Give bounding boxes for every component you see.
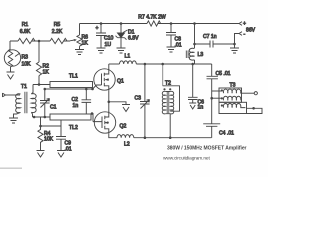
ground D1 <box>117 48 126 53</box>
svg-text:6.8K: 6.8K <box>20 29 31 35</box>
capacitor C5 <box>207 71 231 91</box>
svg-text:1n: 1n <box>198 105 204 111</box>
capacitor C9 <box>56 120 72 153</box>
wire R4 branch <box>41 117 62 126</box>
inductor L2 <box>117 135 134 148</box>
svg-text:R5: R5 <box>54 22 61 28</box>
potentiometer R3 <box>4 49 31 72</box>
node C1 top <box>44 88 47 91</box>
transmission line TL1 <box>50 74 93 88</box>
node L3 rail tee <box>193 22 196 25</box>
node D1 rail <box>120 22 123 25</box>
svg-text:-: - <box>244 32 246 38</box>
mosfet Q2 <box>94 111 126 133</box>
wire R2 vertical from junction <box>38 41 40 62</box>
node R4 top <box>39 125 42 128</box>
wire row2 stub <box>212 97 222 99</box>
svg-text:+: + <box>96 26 99 32</box>
mosfet Q1 <box>94 64 124 90</box>
supply terminal minus <box>233 32 245 49</box>
transformer T2 <box>162 64 179 138</box>
ground R6 <box>75 50 84 55</box>
svg-text:2.2K: 2.2K <box>52 29 63 35</box>
node row2 tee <box>210 97 213 100</box>
ground C9 <box>57 151 65 158</box>
node TL1 right <box>91 88 94 91</box>
wire gate Q1 under TL1 <box>45 85 102 89</box>
smudge bottom left <box>0 168 22 169</box>
svg-text:10K: 10K <box>22 62 32 68</box>
svg-text:R3: R3 <box>22 55 29 61</box>
ground T1 <box>9 118 18 123</box>
wire L3 vertical from rail <box>194 24 196 49</box>
zener D1 <box>116 24 140 49</box>
node C2 top <box>85 88 88 91</box>
svg-text:1n: 1n <box>73 103 79 109</box>
node C1 bottom <box>44 116 47 119</box>
inductor L3 <box>186 48 203 64</box>
svg-text:Q2: Q2 <box>120 124 127 130</box>
svg-text:TL1: TL1 <box>69 74 78 80</box>
node C10 rail <box>100 22 103 25</box>
svg-text:C4 .01: C4 .01 <box>219 131 234 137</box>
transmission line TL2 <box>50 114 91 131</box>
node output 2 <box>252 107 255 110</box>
wire rail corner to C5 <box>211 64 213 76</box>
potentiometer R6 <box>70 24 88 50</box>
resistor R5 <box>50 38 67 43</box>
node C7 tee <box>193 43 196 46</box>
capacitor C6 <box>188 64 204 111</box>
svg-text:6.8V: 6.8V <box>128 36 139 42</box>
svg-text:R1: R1 <box>22 22 29 28</box>
node R4 tap <box>33 116 36 119</box>
wire Q1 source to Q2 <box>108 90 110 111</box>
wire left down to R3 <box>9 41 11 49</box>
svg-text:C7 1n: C7 1n <box>203 34 217 40</box>
capacitor C2 <box>72 89 92 114</box>
wire drain rail y=64 <box>136 63 211 65</box>
wire main supply rail y=23.5 <box>80 23 240 25</box>
capacitor C8 <box>166 24 182 49</box>
ground C6 <box>189 103 196 109</box>
resistor R2 <box>36 62 41 85</box>
svg-text:C10: C10 <box>104 36 114 42</box>
capacitor C10 <box>96 24 114 49</box>
wire T1 to TL2 y=117 <box>33 116 51 118</box>
inductor L1 <box>120 54 137 65</box>
svg-text:T1: T1 <box>21 84 27 90</box>
svg-text:C3: C3 <box>135 96 142 102</box>
resistor R7 <box>147 21 161 26</box>
transformer T3 <box>219 83 247 114</box>
svg-text:Q1: Q1 <box>117 79 124 85</box>
ground C10 <box>97 48 106 53</box>
capacitor C7 <box>195 34 235 48</box>
ground R3 <box>7 72 15 79</box>
wire C5 to T3 row1 <box>212 90 222 92</box>
ground center <box>122 105 130 112</box>
node C3 bottom <box>144 136 147 139</box>
ground C8 <box>167 47 176 52</box>
svg-text:1K: 1K <box>82 41 89 47</box>
svg-text:TL2: TL2 <box>69 125 78 131</box>
svg-text:+: + <box>243 21 246 27</box>
input terminal <box>3 93 6 97</box>
wire T3 output 1 <box>240 92 254 94</box>
svg-text:1U: 1U <box>105 42 112 48</box>
node T2 top rail <box>161 63 164 66</box>
capacitor C4 <box>203 124 234 138</box>
ground 86V <box>230 48 239 53</box>
node R2 on feed <box>38 83 41 86</box>
variable capacitor C3 <box>135 64 150 138</box>
wire gate Q2 under TL2 <box>91 114 98 122</box>
node T2 bottom bus <box>169 136 172 139</box>
node C6 rail <box>191 63 194 66</box>
svg-text:.01: .01 <box>175 43 182 49</box>
wire vertical C5-C4 <box>211 91 213 124</box>
label R1 <box>20 22 31 35</box>
svg-text:C1: C1 <box>50 105 57 111</box>
svg-text:L1: L1 <box>125 54 131 60</box>
supply terminal 86V plus <box>239 21 246 27</box>
transformer T1 <box>6 84 37 118</box>
label R2 <box>43 64 50 76</box>
node source tee <box>108 101 111 104</box>
ground R4 <box>37 151 45 158</box>
svg-text:10K: 10K <box>44 137 54 143</box>
wire bottom bus y=137.7 <box>134 137 212 139</box>
wire bias feed y=84.5 <box>33 84 50 86</box>
svg-text:L2: L2 <box>124 142 130 148</box>
svg-text:L3: L3 <box>198 52 204 58</box>
wire source to ground <box>109 102 126 105</box>
svg-text:.01: .01 <box>65 147 72 153</box>
wire T3 output 2 <box>240 107 260 110</box>
svg-text:www.circuitdiagram.net: www.circuitdiagram.net <box>163 156 210 162</box>
label R5 <box>52 22 63 35</box>
wire output 2 return <box>247 108 263 113</box>
terminal output 1 <box>254 92 257 95</box>
wire top bias line y=41 <box>10 40 70 42</box>
node TL2 right top <box>91 112 94 115</box>
node C8 rail <box>170 22 173 25</box>
wire Q2 drain down <box>109 134 117 138</box>
node junction R1/R2 <box>38 40 41 43</box>
variable capacitor C1 <box>40 89 57 117</box>
svg-text:380W / 150MHz MOSFET Amplifier: 380W / 150MHz MOSFET Amplifier <box>167 146 247 152</box>
svg-text:86V: 86V <box>246 28 256 34</box>
resistor R4 <box>38 126 54 150</box>
wire Q1 drain to L1 <box>109 63 120 65</box>
svg-text:C5 .01: C5 .01 <box>216 71 231 77</box>
node C3 top <box>144 63 147 66</box>
svg-text:1K: 1K <box>43 70 50 76</box>
svg-text:R7 4.7K 2W: R7 4.7K 2W <box>138 15 166 21</box>
resistor R1 <box>18 38 35 43</box>
